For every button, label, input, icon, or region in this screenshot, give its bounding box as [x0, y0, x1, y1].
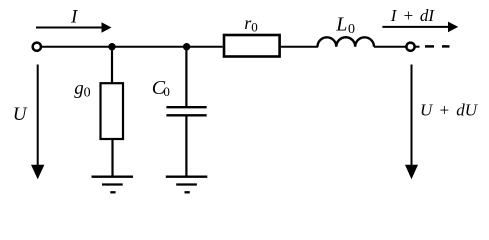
wire inductor to terminal [374, 46, 406, 48]
current arrow I + dI [382, 22, 458, 33]
svg-text:0: 0 [348, 22, 355, 37]
conductance g0 (rectangle) [101, 83, 124, 139]
resistor r0 [224, 35, 280, 57]
wire junction1 down to g0 [111, 47, 113, 82]
svg-text:0: 0 [163, 84, 170, 99]
wire g0 to ground [111, 139, 113, 177]
wire C0 to ground [185, 116, 187, 176]
svg-text:g: g [74, 78, 84, 99]
wire junction2 down to C0 [185, 47, 187, 106]
wire stub right of terminal [416, 46, 420, 48]
svg-text:I + dI: I + dI [390, 6, 436, 25]
svg-text:I: I [70, 6, 79, 27]
svg-text:L: L [335, 14, 347, 36]
ground 2 [166, 177, 208, 193]
ground 1 [92, 177, 134, 193]
svg-text:U: U [13, 104, 28, 125]
terminal right [406, 43, 414, 51]
terminal left [33, 43, 41, 51]
voltage arrow U [31, 65, 44, 180]
svg-text:U + dU: U + dU [420, 101, 479, 120]
svg-text:0: 0 [251, 20, 257, 35]
wire resistor to inductor [281, 46, 318, 48]
node junction 1 [108, 43, 115, 50]
current arrow I [36, 22, 112, 32]
capacitor C0 plates [166, 107, 206, 115]
dashed continuation wire [425, 45, 450, 48]
wire top left [42, 46, 223, 48]
node junction 2 [183, 43, 190, 50]
svg-text:0: 0 [84, 85, 91, 100]
inductor L0 [318, 37, 375, 46]
voltage arrow U + dU [405, 65, 418, 180]
